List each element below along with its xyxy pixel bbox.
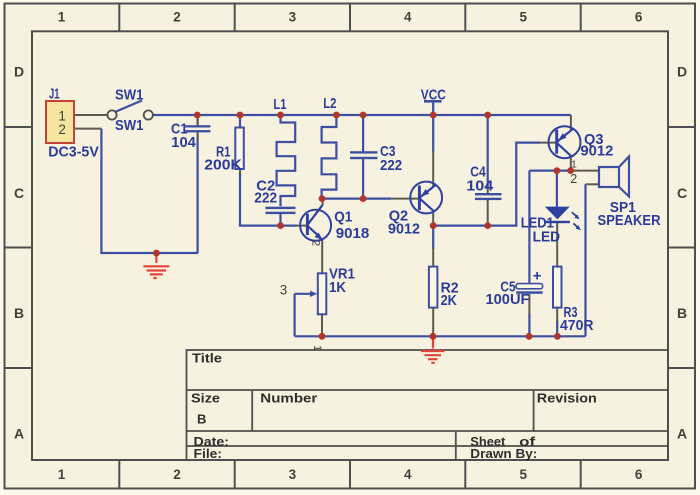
svg-text:C: C	[677, 185, 687, 201]
svg-text:2: 2	[173, 467, 181, 482]
svg-text:222: 222	[254, 190, 277, 207]
svg-text:Size: Size	[191, 391, 220, 406]
svg-text:470R: 470R	[560, 317, 594, 334]
svg-text:DC3-5V: DC3-5V	[48, 144, 99, 161]
svg-text:Title: Title	[192, 351, 222, 366]
svg-text:3: 3	[289, 10, 297, 25]
svg-text:6: 6	[635, 10, 643, 25]
svg-text:SW1: SW1	[115, 117, 144, 134]
svg-text:1K: 1K	[329, 279, 346, 296]
svg-text:3: 3	[289, 467, 297, 482]
svg-text:2K: 2K	[441, 292, 457, 309]
svg-text:2: 2	[173, 10, 181, 25]
svg-text:1: 1	[571, 158, 577, 170]
svg-text:SPEAKER: SPEAKER	[598, 212, 661, 229]
svg-text:5: 5	[519, 10, 527, 25]
svg-text:Revision: Revision	[537, 391, 597, 406]
svg-text:VCC: VCC	[421, 87, 446, 104]
svg-text:6: 6	[635, 467, 643, 482]
svg-text:A: A	[14, 426, 24, 442]
svg-text:3: 3	[280, 283, 288, 298]
svg-text:200K: 200K	[204, 157, 242, 174]
svg-text:Q1: Q1	[334, 208, 352, 225]
svg-text:B: B	[197, 412, 206, 427]
svg-text:1: 1	[58, 10, 66, 25]
svg-text:SW1: SW1	[115, 86, 144, 103]
svg-text:L1: L1	[273, 96, 286, 113]
svg-text:9012: 9012	[388, 221, 420, 238]
svg-text:J1: J1	[49, 85, 60, 102]
svg-text:4: 4	[404, 467, 412, 482]
svg-text:LED: LED	[533, 228, 561, 245]
svg-text:1: 1	[311, 345, 323, 351]
svg-text:File:: File:	[194, 446, 223, 461]
svg-text:104: 104	[171, 134, 196, 151]
svg-text:4: 4	[404, 10, 412, 25]
svg-text:2: 2	[570, 172, 577, 186]
svg-text:A: A	[677, 426, 687, 442]
svg-text:L2: L2	[323, 95, 336, 112]
svg-text:2: 2	[310, 240, 322, 246]
svg-text:D: D	[14, 64, 24, 80]
svg-text:D: D	[677, 64, 687, 80]
svg-text:100UF: 100UF	[486, 291, 530, 308]
svg-text:9012: 9012	[580, 142, 613, 159]
svg-text:222: 222	[380, 157, 402, 174]
svg-text:1: 1	[58, 467, 66, 482]
svg-text:B: B	[14, 305, 24, 321]
svg-text:Number: Number	[260, 391, 317, 406]
svg-text:5: 5	[519, 467, 527, 482]
svg-text:+: +	[533, 268, 542, 285]
svg-text:C: C	[14, 185, 24, 201]
svg-text:B: B	[677, 305, 687, 321]
svg-text:2: 2	[58, 122, 66, 137]
svg-text:Drawn By:: Drawn By:	[470, 446, 537, 461]
svg-text:104: 104	[466, 178, 494, 195]
svg-text:9018: 9018	[336, 225, 370, 242]
